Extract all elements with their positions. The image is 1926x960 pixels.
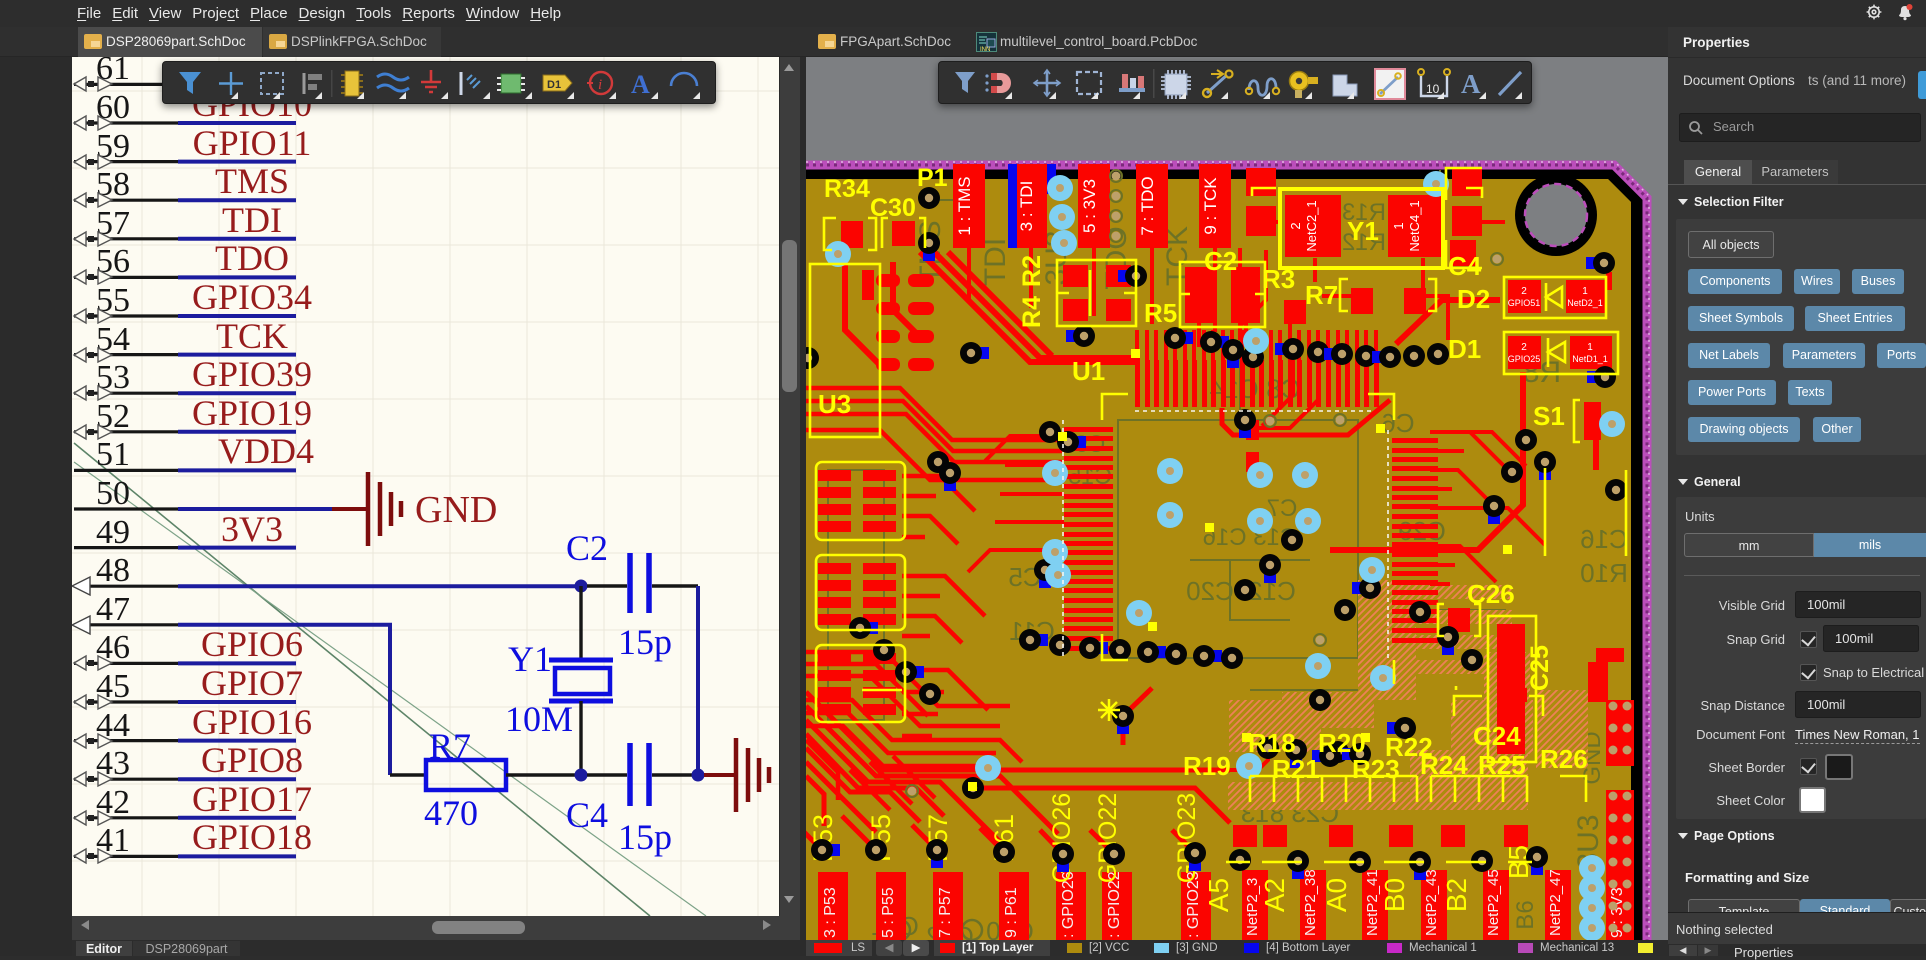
- svg-text:5 : P55: 5 : P55: [880, 887, 897, 938]
- svg-text:2: 2: [1288, 222, 1303, 229]
- svg-text:A: A: [1461, 69, 1481, 99]
- svg-text:2: 2: [1521, 342, 1527, 353]
- svg-text:C2: C2: [566, 528, 608, 568]
- svg-text:49: 49: [96, 514, 130, 551]
- svg-text:3 : TDI: 3 : TDI: [1017, 181, 1036, 232]
- svg-text:5 : 3V3: 5 : 3V3: [1080, 179, 1099, 233]
- svg-text:15p: 15p: [618, 817, 672, 857]
- svg-text:C6: C6: [1381, 408, 1414, 438]
- svg-text:R2: R2: [1018, 255, 1046, 287]
- svg-text:NetC2_1: NetC2_1: [1304, 200, 1319, 251]
- svg-text:10M: 10M: [505, 699, 573, 739]
- svg-text:3V3: 3V3: [221, 509, 283, 549]
- svg-text:NetD2_1: NetD2_1: [1567, 298, 1603, 308]
- svg-text:R21: R21: [1272, 754, 1320, 784]
- svg-text:15p: 15p: [618, 622, 672, 662]
- svg-text:B0: B0: [1379, 878, 1410, 912]
- svg-text:TDO: TDO: [215, 238, 289, 278]
- svg-text:D1: D1: [1448, 334, 1481, 364]
- svg-text:GPIO39: GPIO39: [192, 354, 312, 394]
- svg-text:50: 50: [96, 475, 130, 512]
- svg-text:GPIO16: GPIO16: [192, 702, 312, 742]
- svg-text:GND: GND: [415, 489, 497, 531]
- svg-text:NetC4_1: NetC4_1: [1407, 200, 1422, 251]
- svg-text:1: 1: [1582, 286, 1588, 297]
- svg-text:C25: C25: [1526, 645, 1554, 691]
- svg-text:A0: A0: [1321, 878, 1352, 912]
- svg-text:GPIO22: GPIO22: [1094, 793, 1122, 883]
- svg-text:U3: U3: [818, 389, 851, 419]
- svg-text:S1: S1: [1533, 401, 1565, 431]
- svg-text:GPIO6: GPIO6: [201, 624, 303, 664]
- svg-text:NetP2_38: NetP2_38: [1302, 869, 1319, 936]
- svg-text:C4: C4: [1448, 251, 1482, 281]
- svg-text:Y1: Y1: [508, 639, 552, 679]
- svg-text:D2: D2: [1457, 284, 1490, 314]
- svg-text:i: i: [598, 77, 602, 93]
- svg-text:Y1: Y1: [1347, 216, 1379, 246]
- svg-text:NetP2_45: NetP2_45: [1485, 869, 1502, 936]
- svg-text:GPIO17: GPIO17: [192, 779, 312, 819]
- svg-text:47: 47: [96, 591, 130, 628]
- svg-text:GPIO7: GPIO7: [201, 663, 303, 703]
- svg-text:VDD4: VDD4: [218, 431, 314, 471]
- svg-text:1: 1: [1391, 222, 1406, 229]
- svg-text:D1: D1: [547, 79, 561, 91]
- svg-text:R23: R23: [1352, 754, 1400, 784]
- svg-text:9 : TCK: 9 : TCK: [1201, 177, 1220, 235]
- svg-text:2: 2: [1521, 286, 1527, 297]
- svg-text:TDI: TDI: [222, 200, 282, 240]
- svg-text:NetD1_1: NetD1_1: [1572, 354, 1608, 364]
- svg-text:1 : TMS: 1 : TMS: [955, 176, 974, 235]
- svg-text:TCK: TCK: [216, 316, 288, 356]
- svg-text:C16: C16: [1580, 524, 1628, 554]
- svg-text:GPIO19: GPIO19: [192, 393, 312, 433]
- svg-text:10: 10: [1426, 82, 1440, 96]
- svg-text:GPIO18: GPIO18: [192, 817, 312, 857]
- svg-text:NetP2_47: NetP2_47: [1547, 869, 1564, 936]
- svg-text:A5: A5: [1203, 878, 1234, 912]
- svg-text:3 : P53: 3 : P53: [822, 887, 839, 938]
- svg-text:R4: R4: [1018, 296, 1046, 328]
- svg-text:GPIO25: GPIO25: [1508, 354, 1541, 364]
- svg-text:P1: P1: [917, 164, 948, 192]
- svg-text:GPIO11: GPIO11: [193, 123, 312, 163]
- svg-text:B2: B2: [1441, 878, 1472, 912]
- svg-text:7 : P57: 7 : P57: [937, 887, 954, 938]
- svg-text:R7: R7: [429, 726, 471, 766]
- svg-text:7 : TDO: 7 : TDO: [1138, 176, 1157, 235]
- svg-text:C29: C29: [1398, 516, 1446, 546]
- svg-text:9 : P61: 9 : P61: [1003, 887, 1020, 938]
- svg-text:R5: R5: [1144, 298, 1177, 328]
- svg-text:C20: C20: [1186, 576, 1234, 606]
- svg-text:R34: R34: [824, 175, 870, 203]
- svg-text:B6: B6: [1512, 900, 1539, 929]
- svg-text:51: 51: [96, 436, 130, 473]
- svg-text:1: 1: [1587, 342, 1593, 353]
- svg-text:R10: R10: [1580, 558, 1628, 588]
- svg-text:U1: U1: [1072, 356, 1105, 386]
- svg-text:C24: C24: [1473, 721, 1521, 751]
- svg-text:470: 470: [424, 793, 478, 833]
- svg-text:R26: R26: [1540, 744, 1588, 774]
- svg-text:48: 48: [96, 552, 130, 589]
- svg-text:TMS: TMS: [215, 161, 289, 201]
- svg-text:INN: INN: [980, 47, 990, 52]
- svg-text:R7: R7: [1305, 280, 1338, 310]
- svg-text:A: A: [631, 70, 650, 99]
- svg-text:C4: C4: [566, 795, 608, 835]
- svg-text:GPIO8: GPIO8: [201, 740, 303, 780]
- svg-text:A2: A2: [1259, 878, 1290, 912]
- svg-text:GPIO34: GPIO34: [192, 277, 312, 317]
- svg-text:GPIO51: GPIO51: [1508, 298, 1541, 308]
- svg-text:R19: R19: [1183, 751, 1231, 781]
